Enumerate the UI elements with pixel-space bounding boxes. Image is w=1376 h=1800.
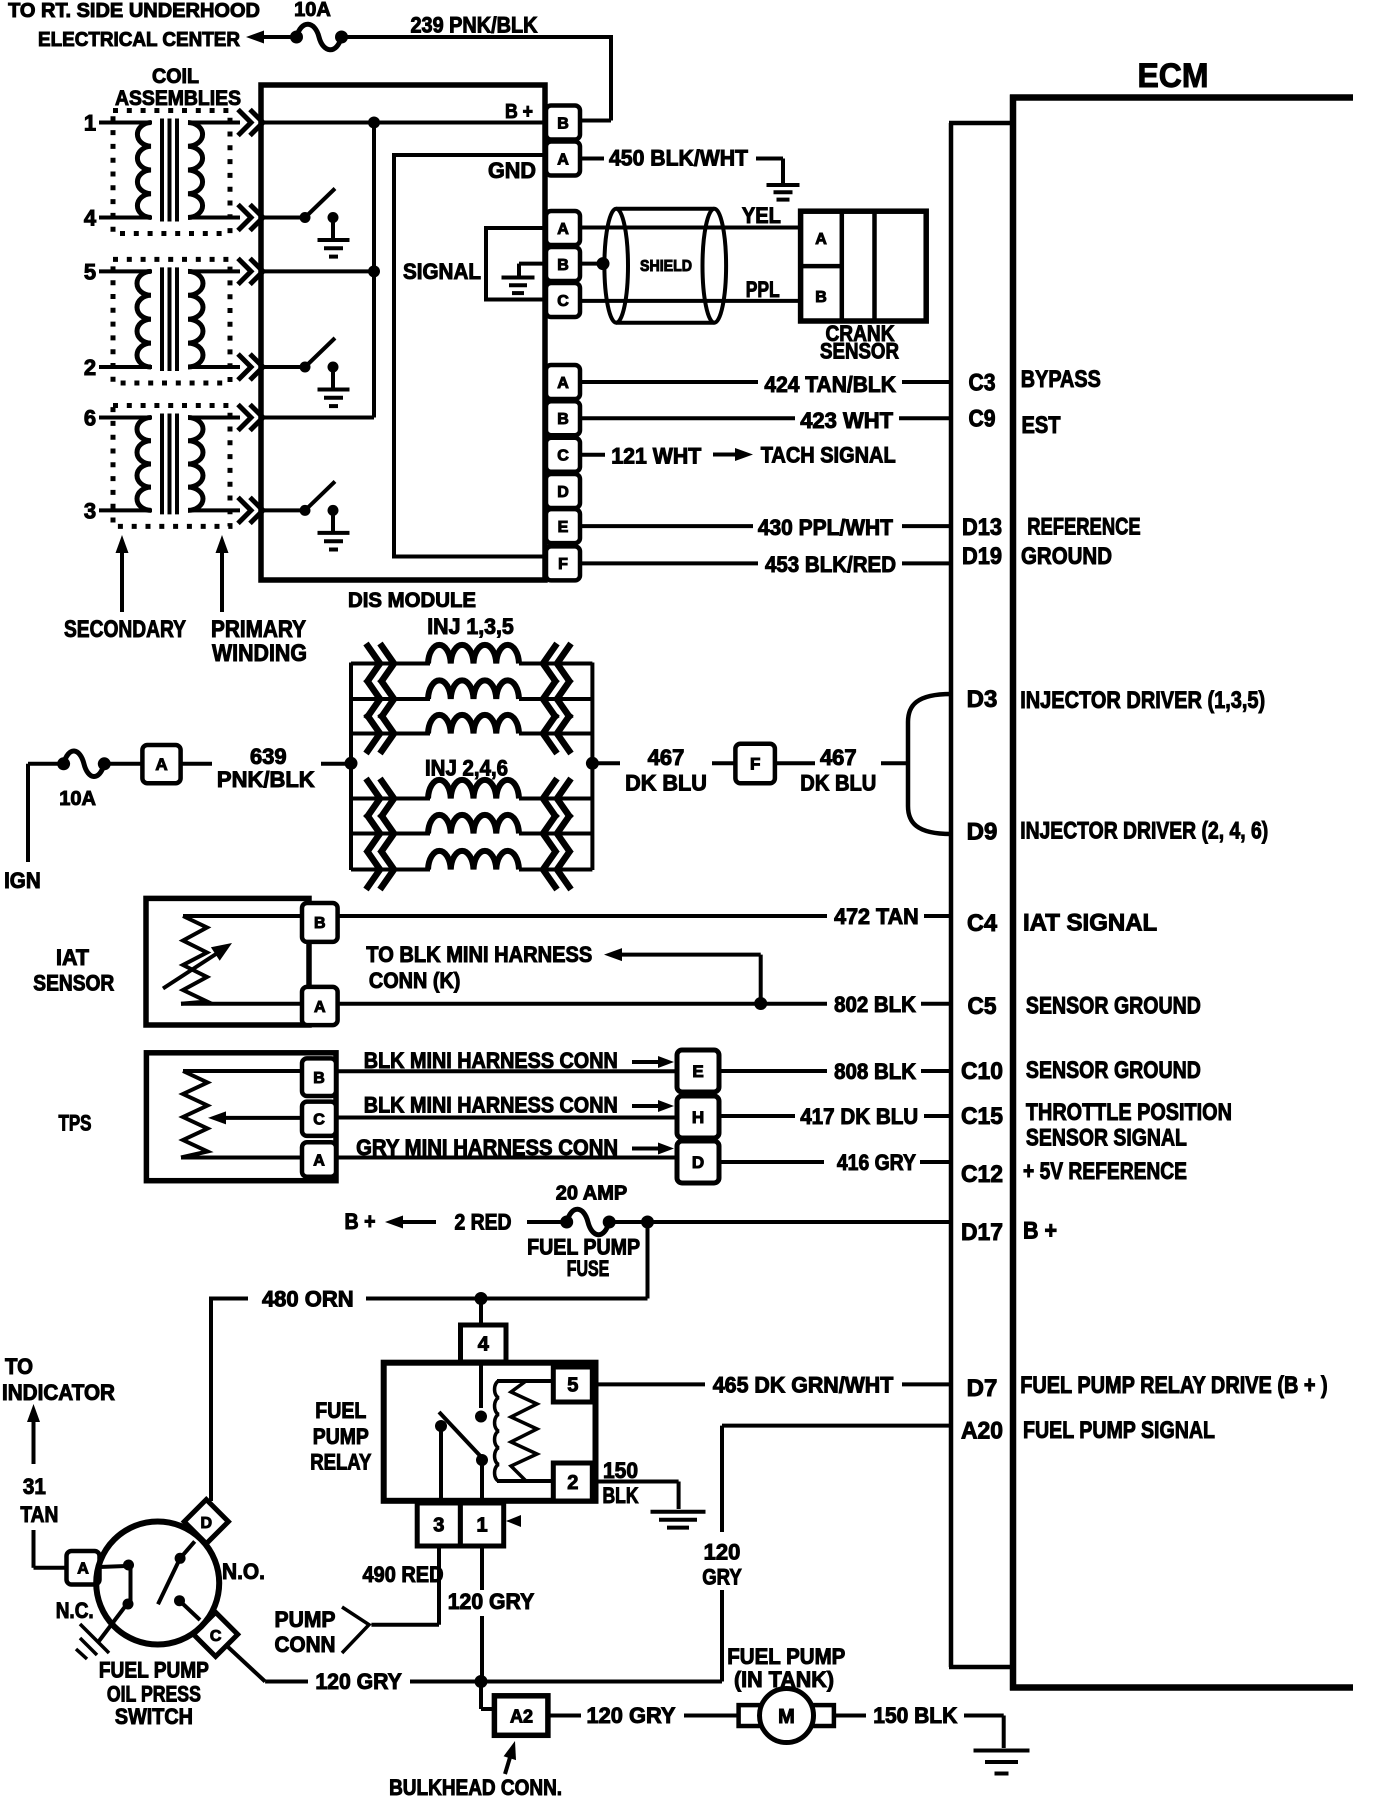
wire 802 BLK — [338, 1002, 951, 1006]
pin number 5 (coil T2) — [84, 259, 96, 284]
svg-text:2 RED: 2 RED — [455, 1210, 512, 1235]
label PPL — [746, 277, 780, 302]
wire 639 PNK/BLK — [181, 762, 351, 766]
relay K1 pin 3 — [417, 1503, 460, 1546]
label B+ — [505, 101, 533, 123]
wire B+ vertical rail — [372, 123, 376, 418]
primary winding T2 — [188, 271, 203, 367]
svg-text:416 GRY: 416 GRY — [837, 1150, 916, 1175]
svg-text:SENSOR GROUND: SENSOR GROUND — [1026, 993, 1201, 1020]
wire 416 GRY — [719, 1160, 951, 1164]
value label 424 TAN/BLK — [764, 372, 896, 397]
net label TO INDICATOR — [2, 1354, 115, 1405]
value label 472 TAN — [834, 904, 919, 929]
svg-text:F: F — [558, 556, 568, 573]
label SECONDARY with arrow — [64, 535, 186, 643]
DIS pin C (crank) — [546, 283, 580, 317]
value label 639 PNK/BLK — [217, 744, 315, 792]
label CRANK SENSOR — [820, 321, 899, 364]
secondary winding T2 — [137, 271, 151, 367]
label PUMP CONN — [275, 1607, 336, 1657]
junction dot left bus — [345, 757, 358, 770]
wire 423 WHT — [580, 416, 951, 420]
harness label row D — [356, 1135, 618, 1160]
ECM connector strip — [949, 123, 1013, 1667]
svg-text:C3: C3 — [969, 370, 996, 397]
svg-text:DK BLU: DK BLU — [800, 771, 876, 796]
coil assembly T1 dotted boundary — [113, 111, 230, 234]
ECM signal label BYPASS — [1021, 366, 1101, 393]
svg-text:N.C.: N.C. — [56, 1598, 94, 1623]
label SHIELD — [640, 258, 692, 275]
relay K1 pin 4 — [461, 1325, 507, 1362]
label BULKHEAD CONN. — [389, 1775, 562, 1800]
value label 150 BLK (pump) — [873, 1703, 957, 1728]
relay K1 pin 5 — [553, 1367, 592, 1402]
label PRIMARY WINDING with arrow — [211, 535, 307, 667]
value label 417 DK BLU — [800, 1104, 918, 1129]
value label 423 WHT — [800, 408, 893, 433]
wire TPS A to conn D — [336, 1156, 677, 1160]
ECM signal label SENSOR SIGNAL — [1026, 1125, 1187, 1152]
svg-text:SENSOR GROUND: SENSOR GROUND — [1026, 1057, 1201, 1084]
svg-text:D: D — [557, 484, 569, 501]
oil switch terminal A — [67, 1551, 100, 1585]
IAT sensor box — [146, 898, 309, 1025]
wire cyl 2 to T2 secondary — [99, 365, 152, 369]
svg-text:H: H — [692, 1108, 704, 1127]
relay K1 coil — [495, 1381, 554, 1481]
fuse F2 10A — [57, 751, 111, 810]
wire A20 fuel pump signal — [722, 1426, 951, 1682]
ECM pin label C3 — [969, 370, 996, 397]
net label IGN — [4, 868, 41, 893]
svg-text:IGN: IGN — [4, 868, 41, 893]
harness label row E — [364, 1048, 618, 1073]
svg-text:CONN (K): CONN (K) — [369, 968, 461, 993]
svg-text:120 GRY: 120 GRY — [315, 1669, 402, 1694]
svg-text:BLK MINI HARNESS CONN: BLK MINI HARNESS CONN — [364, 1093, 618, 1118]
injector driver brace — [908, 694, 951, 834]
svg-text:PNK/BLK: PNK/BLK — [217, 767, 315, 792]
secondary winding T1 — [137, 123, 151, 218]
DIS pin C (EST group) — [546, 438, 580, 472]
svg-text:FUEL PUMP: FUEL PUMP — [99, 1658, 209, 1683]
wire 120 GRY (relay pin1) — [480, 1546, 484, 1682]
wire B+ rail inside DIS — [261, 121, 546, 125]
pin number 3 (coil T3) — [84, 498, 96, 523]
svg-text:YEL: YEL — [742, 203, 781, 228]
TPS pin C — [302, 1102, 336, 1136]
injector INJ3 — [351, 679, 592, 719]
DIS signal ground — [502, 264, 546, 294]
DIS module label — [348, 589, 476, 612]
net label B+ — [345, 1209, 376, 1234]
svg-text:CONN: CONN — [275, 1632, 336, 1657]
svg-text:A: A — [815, 231, 827, 248]
fuel pump oil press switch S4 body — [96, 1522, 219, 1645]
core T1 — [162, 119, 177, 222]
svg-text:SWITCH: SWITCH — [115, 1704, 193, 1729]
ground (fuel pump) — [974, 1751, 1030, 1774]
svg-text:A: A — [77, 1561, 89, 1578]
svg-text:450 BLK/WHT: 450 BLK/WHT — [609, 146, 749, 171]
wire to harness conn K — [604, 948, 761, 1003]
ECM left edge — [1010, 95, 1017, 1691]
svg-text:C15: C15 — [961, 1103, 1003, 1130]
wire cyl 6 to T3 secondary — [99, 416, 152, 420]
svg-text:4: 4 — [84, 206, 97, 231]
svg-text:FUEL PUMP RELAY DRIVE (B + ): FUEL PUMP RELAY DRIVE (B + ) — [1020, 1372, 1327, 1399]
wire 472 TAN — [338, 914, 951, 918]
net label TACH SIGNAL — [761, 443, 896, 468]
ECM pin label D19 — [962, 543, 1002, 570]
wire PPL (crank B) — [580, 299, 801, 303]
svg-text:20 AMP: 20 AMP — [556, 1183, 628, 1205]
wire to bulkhead A2 — [481, 1682, 494, 1710]
arrow to B+ — [385, 1216, 436, 1229]
svg-text:DK BLU: DK BLU — [625, 771, 707, 796]
svg-text:6: 6 — [84, 406, 96, 431]
ECM signal label EST — [1022, 412, 1061, 439]
svg-text:TO RT. SIDE UNDERHOOD: TO RT. SIDE UNDERHOOD — [8, 0, 260, 22]
net label TO RT. SIDE UNDERHOOD ELECTRICAL CENTER — [8, 0, 260, 51]
svg-text:COIL: COIL — [152, 65, 199, 88]
svg-text:4: 4 — [478, 1334, 490, 1356]
svg-text:120 GRY: 120 GRY — [448, 1589, 535, 1614]
label N.C. — [56, 1598, 94, 1623]
IAT thermistor RT1 — [163, 916, 302, 1004]
svg-text:TO: TO — [5, 1354, 33, 1379]
svg-text:SENSOR SIGNAL: SENSOR SIGNAL — [1026, 1125, 1187, 1152]
switch S1 (coil driver) — [300, 189, 339, 240]
DIS pin E (EST group) — [546, 509, 580, 543]
wire 2 RED — [527, 1220, 567, 1224]
IAT sensor label — [33, 945, 114, 996]
DIS pin B — [546, 106, 580, 140]
svg-text:A: A — [314, 999, 326, 1016]
junction dot relay feed — [475, 1292, 488, 1305]
ground (relay pin 2) — [651, 1512, 706, 1528]
TPS pin B — [302, 1058, 336, 1096]
connector H — [677, 1096, 719, 1138]
core T3 — [162, 414, 177, 515]
relay K1 pin 1 — [460, 1503, 503, 1546]
svg-text:467: 467 — [648, 745, 685, 770]
svg-text:IAT: IAT — [56, 945, 90, 970]
injector INJ5 — [351, 714, 592, 754]
svg-text:+ 5V REFERENCE: + 5V REFERENCE — [1023, 1158, 1187, 1185]
svg-text:A: A — [557, 375, 569, 392]
TPS label — [59, 1111, 92, 1136]
svg-text:D3: D3 — [967, 686, 998, 713]
wire cyl 4 to T1 secondary — [99, 216, 152, 220]
svg-text:INJ 2,4,6: INJ 2,4,6 — [425, 755, 508, 780]
svg-text:B: B — [557, 411, 569, 428]
svg-text:PUMP: PUMP — [275, 1607, 336, 1632]
ECM signal label SENSOR GROUND — [1026, 993, 1201, 1020]
wire 465 DK GRN/WHT — [592, 1382, 951, 1386]
svg-text:ELECTRICAL CENTER: ELECTRICAL CENTER — [38, 29, 241, 51]
harness label row H — [364, 1093, 618, 1118]
svg-text:A: A — [155, 755, 167, 774]
svg-text:121 WHT: 121 WHT — [611, 444, 702, 469]
svg-text:(IN TANK): (IN TANK) — [734, 1667, 834, 1692]
injector INJ4 — [351, 814, 592, 854]
wire 808 BLK — [719, 1069, 951, 1073]
value label 150 BLK (relay) — [603, 1458, 639, 1508]
value label 480 ORN — [262, 1287, 354, 1312]
ECM signal label INJECTOR DRIVER (1,3,5) — [1020, 687, 1265, 714]
ECM signal label FUEL PUMP RELAY DRIVE (B + ) — [1020, 1372, 1327, 1399]
svg-text:C: C — [557, 293, 569, 310]
primary winding T1 — [188, 123, 203, 218]
svg-text:B: B — [815, 289, 827, 306]
junction dot right bus — [586, 757, 599, 770]
junction dot coil5 feed — [368, 265, 380, 277]
wire fuse to 480 ORN rail — [646, 1222, 650, 1299]
DIS pin A (crank) — [546, 211, 580, 245]
DIS pin B (EST group) — [546, 401, 580, 435]
svg-text:2: 2 — [567, 1472, 578, 1494]
connector D — [677, 1141, 719, 1183]
svg-text:B: B — [313, 1070, 325, 1087]
junction dot fuse output — [641, 1216, 654, 1229]
ECM signal label FUEL PUMP SIGNAL — [1023, 1417, 1215, 1444]
svg-text:490 RED: 490 RED — [363, 1562, 444, 1587]
svg-text:FUEL PUMP SIGNAL: FUEL PUMP SIGNAL — [1023, 1417, 1215, 1444]
wire shield drain — [580, 257, 610, 270]
svg-text:453 BLK/RED: 453 BLK/RED — [765, 552, 896, 577]
injector left bus — [349, 663, 353, 871]
switch label FUEL PUMP OIL PRESS SWITCH — [99, 1658, 209, 1730]
svg-text:B +: B + — [505, 101, 533, 123]
pin number 2 (coil T2) — [84, 355, 96, 380]
svg-text:480 ORN: 480 ORN — [262, 1287, 354, 1312]
svg-text:IAT SIGNAL: IAT SIGNAL — [1023, 910, 1157, 937]
svg-text:10A: 10A — [59, 788, 96, 810]
svg-text:TPS: TPS — [59, 1111, 92, 1136]
ECM bottom edge — [1010, 1684, 1353, 1691]
value label 808 BLK — [834, 1059, 916, 1084]
fuse F3 fuel pump 20A — [556, 1183, 628, 1235]
svg-text:FUEL PUMP: FUEL PUMP — [727, 1644, 845, 1669]
arrow to A2 — [504, 1741, 516, 1774]
value label 416 GRY — [837, 1150, 916, 1175]
svg-text:C10: C10 — [961, 1058, 1003, 1085]
TPS potentiometer R2 — [181, 1071, 302, 1158]
svg-text:417 DK BLU: 417 DK BLU — [800, 1104, 918, 1129]
injector INJ2 — [351, 779, 592, 819]
svg-text:A2: A2 — [510, 1707, 533, 1727]
svg-text:10A: 10A — [294, 0, 331, 21]
label YEL — [742, 203, 781, 228]
svg-text:239 PNK/BLK: 239 PNK/BLK — [411, 13, 538, 38]
svg-text:B +: B + — [1023, 1218, 1057, 1245]
wire TPS B to conn E — [336, 1069, 677, 1073]
svg-text:120 GRY: 120 GRY — [587, 1703, 676, 1728]
TPS pin A — [302, 1142, 336, 1176]
value label 490 RED — [363, 1562, 444, 1587]
injector INJ6 — [351, 850, 592, 890]
wire cyl 5 to T2 secondary — [99, 269, 152, 273]
DIS inner signal box — [394, 155, 545, 557]
wire 120 GRY rail — [228, 1647, 722, 1682]
svg-text:472 TAN: 472 TAN — [834, 904, 919, 929]
svg-text:D7: D7 — [967, 1375, 998, 1402]
svg-text:2: 2 — [84, 355, 96, 380]
coil assembly T3 dotted boundary — [113, 406, 230, 527]
svg-text:SHIELD: SHIELD — [640, 258, 692, 275]
svg-text:TACH SIGNAL: TACH SIGNAL — [761, 443, 896, 468]
IAT pin A — [302, 987, 338, 1025]
label GND — [488, 158, 536, 183]
primary winding T3 — [188, 418, 203, 511]
svg-text:D: D — [201, 1515, 213, 1532]
svg-text:150: 150 — [603, 1458, 638, 1483]
ECM pin label D9 — [967, 819, 998, 846]
relay K1 pin 2 — [553, 1463, 592, 1501]
wire T3 primary bottom to DIS — [188, 497, 263, 523]
pin number 1 (coil T1) — [84, 111, 96, 136]
ECM signal label SENSOR GROUND — [1026, 1057, 1201, 1084]
svg-text:467: 467 — [820, 745, 857, 770]
wire fuse to connector A — [104, 762, 142, 766]
svg-text:GROUND: GROUND — [1021, 543, 1112, 570]
DIS pin B (crank shield) — [546, 247, 580, 281]
injector right bus — [590, 663, 594, 871]
svg-text:SENSOR: SENSOR — [33, 971, 114, 996]
ECM signal label INJECTOR DRIVER (2, 4, 6) — [1020, 818, 1268, 845]
svg-text:A: A — [557, 151, 569, 168]
svg-text:REFERENCE: REFERENCE — [1027, 514, 1141, 541]
svg-text:SIGNAL: SIGNAL — [403, 259, 481, 284]
ECM pin label A20 — [961, 1418, 1003, 1445]
ECM pin label C5 — [968, 993, 997, 1020]
fuse F1 10A — [290, 0, 348, 50]
svg-text:E: E — [558, 519, 569, 536]
value label 31 TAN — [20, 1474, 58, 1527]
DIS pin F (EST group) — [546, 546, 580, 580]
svg-text:C: C — [210, 1628, 222, 1645]
wire cyl 1 to T1 secondary — [99, 121, 152, 125]
wire to switch S3 — [261, 508, 305, 512]
label N.O. — [222, 1559, 265, 1584]
ECM signal label REFERENCE — [1027, 514, 1141, 541]
svg-text:WINDING: WINDING — [212, 640, 307, 667]
wire 490 RED — [371, 1546, 439, 1625]
ECM signal label IAT SIGNAL — [1023, 910, 1157, 937]
TPS box — [146, 1053, 336, 1181]
value label 121 WHT — [611, 444, 702, 469]
DIS pin A (EST group) — [546, 365, 580, 399]
svg-text:639: 639 — [250, 744, 287, 769]
harness arrow row D — [632, 1143, 674, 1155]
wire T1 primary top to DIS — [188, 110, 263, 136]
arrow to indicator — [27, 1404, 40, 1464]
svg-text:GND: GND — [488, 158, 536, 183]
svg-text:31: 31 — [23, 1474, 46, 1499]
DIS module box U1 — [261, 85, 545, 580]
svg-text:PUMP: PUMP — [313, 1424, 369, 1449]
svg-text:D9: D9 — [967, 819, 998, 846]
coil assembly T2 dotted boundary — [113, 259, 230, 383]
wire IGN feed — [28, 764, 64, 862]
bulkhead connector A2 — [494, 1696, 548, 1736]
wire 121 WHT tach — [580, 453, 605, 457]
pin number 4 (coil T1) — [84, 206, 97, 231]
svg-text:N.O.: N.O. — [222, 1559, 265, 1584]
svg-text:INDICATOR: INDICATOR — [2, 1380, 115, 1405]
value label 450 BLK/WHT — [609, 146, 749, 171]
svg-text:C4: C4 — [967, 910, 998, 937]
ECM pin label C12 — [961, 1161, 1003, 1188]
value label 2 RED — [455, 1210, 512, 1235]
svg-text:A20: A20 — [961, 1418, 1003, 1445]
pump connector symbol — [342, 1607, 369, 1653]
wire 430 PPL/WHT — [580, 524, 951, 528]
svg-text:E: E — [692, 1062, 703, 1081]
wire cyl 3 to T3 secondary — [99, 508, 152, 512]
ECM pin label C15 — [961, 1103, 1003, 1130]
DIS pin A (GND) — [546, 142, 580, 176]
tach arrow — [713, 448, 753, 461]
label SIGNAL — [403, 259, 481, 284]
svg-text:C5: C5 — [968, 993, 997, 1020]
junction dot sensor ground — [754, 997, 767, 1010]
fuse label FUEL PUMP FUSE — [527, 1235, 640, 1282]
svg-text:SENSOR: SENSOR — [820, 339, 899, 364]
svg-text:D13: D13 — [962, 514, 1002, 541]
wire 467 DK BLU (left) — [592, 761, 735, 765]
svg-text:C9: C9 — [969, 406, 996, 433]
ground (switch S1) — [318, 240, 350, 257]
injector bank label INJ 2,4,6 — [425, 755, 508, 780]
label FUEL PUMP (IN TANK) — [727, 1644, 845, 1692]
value label 430 PPL/WHT — [758, 515, 894, 540]
arrow at relay pin 1 — [506, 1515, 521, 1527]
svg-text:802 BLK: 802 BLK — [834, 992, 916, 1017]
wire coil 6 feed — [261, 416, 374, 420]
svg-text:GRY: GRY — [702, 1565, 742, 1590]
svg-text:INJ 1,3,5: INJ 1,3,5 — [427, 614, 514, 639]
IAT pin B — [302, 903, 338, 942]
oil switch terminal D — [184, 1500, 228, 1544]
svg-text:1: 1 — [84, 111, 96, 136]
oil switch contacts — [100, 1541, 201, 1620]
svg-text:THROTTLE POSITION: THROTTLE POSITION — [1026, 1099, 1232, 1126]
relay label FUEL PUMP RELAY — [310, 1398, 371, 1475]
core T2 — [162, 267, 177, 371]
svg-text:INJECTOR DRIVER (2, 4, 6): INJECTOR DRIVER (2, 4, 6) — [1020, 818, 1268, 845]
ECM pin label C9 — [969, 406, 996, 433]
wire 467 DK BLU (right) — [775, 761, 908, 765]
svg-text:1: 1 — [476, 1515, 487, 1537]
svg-text:EST: EST — [1022, 412, 1061, 439]
svg-text:B: B — [557, 257, 569, 274]
junction dot B+ rail — [368, 117, 380, 129]
value label 467 DK BLU (2) — [800, 745, 876, 796]
connector A — [142, 745, 180, 783]
coil assemblies label — [115, 65, 241, 110]
svg-text:FUSE: FUSE — [567, 1256, 610, 1281]
svg-text:PRIMARY: PRIMARY — [211, 616, 306, 643]
relay K1 internal contact — [435, 1363, 488, 1546]
wire 453 BLK/RED — [580, 561, 951, 565]
value label 120 GRY (pin1) — [448, 1589, 535, 1614]
svg-text:D19: D19 — [962, 543, 1002, 570]
N.C. contact hatching — [76, 1604, 127, 1659]
